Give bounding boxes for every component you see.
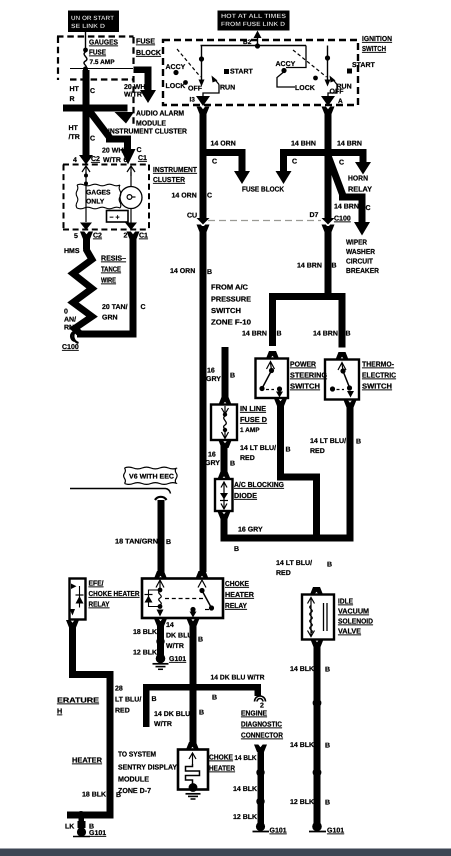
svg-text:ZONE D-7: ZONE D-7: [118, 786, 151, 795]
svg-text:B: B: [230, 373, 235, 380]
label: 20 TAN/ GRN: [102, 303, 128, 322]
svg-text:RN: RN: [64, 325, 74, 332]
label: CHOKE HEATER RELAY: [225, 579, 255, 610]
svg-text:LK: LK: [65, 824, 74, 831]
svg-text:14 DK BLU W/TR: 14 DK BLU W/TR: [211, 674, 265, 682]
connector arrow into instrument cluster pin 4: [79, 155, 93, 165]
label: cropped 20 WHT W/TR lower left: [69, 125, 80, 141]
svg-text:BREAKER: BREAKER: [346, 266, 380, 275]
label: 20 WHT W/TR 6: [102, 148, 128, 165]
svg-text:6: 6: [124, 157, 128, 164]
label: ENGINE DIAGNOSTIC CONNECTOR: [241, 709, 284, 740]
svg-text:C: C: [90, 136, 95, 143]
svg-text:OFF: OFF: [188, 86, 203, 93]
label: HORN RELAY: [348, 174, 372, 194]
battery symbol box: [107, 211, 129, 223]
resistor: RESISTANCE WIRE zigzag: [73, 246, 92, 334]
svg-text:RUN: RUN: [220, 85, 235, 92]
svg-text:STEERING: STEERING: [290, 371, 327, 380]
svg-text:14 ORN: 14 ORN: [211, 141, 236, 148]
label: 16 GRY / B lower: [205, 452, 235, 468]
svg-text:B: B: [230, 461, 235, 468]
svg-text:C2: C2: [91, 156, 100, 163]
svg-text:GRY: GRY: [206, 376, 221, 383]
svg-text:14 LT BLU/: 14 LT BLU/: [276, 559, 312, 567]
choke heater box: [178, 750, 208, 800]
svg-text:C100: C100: [334, 216, 351, 223]
svg-text:VACUUM: VACUUM: [338, 607, 369, 616]
label: pin 2 C1: [124, 233, 149, 240]
svg-text:B: B: [207, 269, 212, 276]
wire: W1 14 ORN main vertical upper: [197, 107, 210, 219]
svg-text:18 TAN/GRN: 18 TAN/GRN: [115, 538, 158, 546]
svg-text:14 BLK: 14 BLK: [233, 786, 257, 793]
label: TO SYSTEM SENTRY DISPLAY MODULE ZONE D-7: [118, 750, 177, 796]
svg-text:TO SYSTEM: TO SYSTEM: [118, 750, 156, 759]
svg-text:START: START: [230, 69, 254, 76]
thin line under fuse: [70, 68, 133, 70]
svg-text:ACCY: ACCY: [166, 64, 186, 71]
svg-text:RED: RED: [115, 708, 130, 715]
svg-text:A: A: [338, 98, 343, 105]
svg-text:14 BRN: 14 BRN: [313, 331, 338, 338]
svg-text:C2: C2: [93, 233, 102, 240]
wire: thermo output 14 LT BLU/RED: [344, 400, 357, 542]
connector arrow into cluster pin 6: [121, 149, 136, 165]
connector: 18 TAN/GRN top half: [155, 497, 167, 500]
svg-text:SWITCH: SWITCH: [290, 382, 320, 391]
wire: branch to audio alarm module arrow: [86, 105, 134, 124]
svg-text:G101: G101: [270, 828, 287, 835]
svg-text:G101: G101: [89, 830, 106, 837]
label: 14 DK BLU W/TR between: [166, 622, 192, 650]
svg-text:LT BLU/: LT BLU/: [115, 696, 141, 704]
label: FUSE BLOCK: [136, 37, 162, 58]
svg-text:14 BLK: 14 BLK: [290, 742, 314, 749]
svg-text:G101: G101: [327, 828, 344, 835]
wire: W2 T-split to both switches: [269, 293, 346, 348]
svg-text:14: 14: [166, 622, 174, 629]
svg-text:VALVE: VALVE: [338, 627, 361, 636]
wire: diagonal branch to instrument cluster pin 6: [86, 107, 131, 150]
svg-text:DIAGNOSTIC: DIAGNOSTIC: [241, 720, 282, 729]
label: 14 LT BLU/ RED / B (PS output): [240, 444, 291, 462]
svg-text:FUSE: FUSE: [136, 37, 155, 46]
wire: relay right output 14 DK BLU W/TR: [187, 619, 200, 745]
svg-text:HEATER: HEATER: [225, 590, 255, 599]
choke heater relay box: [142, 579, 223, 619]
svg-text:B: B: [325, 800, 330, 807]
label: 18 TAN/GRN / B: [115, 538, 171, 547]
label: pin C C1: [137, 147, 148, 162]
svg-text:W/TR: W/TR: [166, 642, 184, 650]
svg-text:RELAY: RELAY: [225, 601, 247, 610]
svg-text:SENTRY DISPLAY: SENTRY DISPLAY: [118, 763, 177, 772]
svg-text:C: C: [137, 147, 142, 154]
svg-text:18 BLK: 18 BLK: [133, 629, 157, 636]
svg-text:C: C: [207, 193, 212, 200]
ignition switch wafer 2: [276, 46, 376, 98]
label: TEMPERATURE SWITCH (cropped): [57, 696, 99, 716]
label: 14 BRN / C at horn branch: [337, 141, 362, 167]
svg-text:LOCK: LOCK: [166, 83, 186, 90]
svg-text:W/TR: W/TR: [103, 156, 121, 164]
svg-text:RELAY: RELAY: [348, 185, 372, 194]
svg-text:C1: C1: [138, 155, 147, 162]
svg-text:16 GRY: 16 GRY: [238, 527, 263, 534]
svg-text:14 LT BLU/: 14 LT BLU/: [240, 444, 276, 452]
svg-text:14 LT BLU/: 14 LT BLU/: [310, 437, 346, 445]
svg-text:CIRCUIT: CIRCUIT: [346, 257, 374, 266]
wire: right cluster feed drop: [286, 46, 306, 68]
svg-text:C: C: [339, 160, 344, 167]
svg-text:ELECTRIC: ELECTRIC: [362, 371, 396, 380]
svg-text:R: R: [70, 96, 75, 103]
svg-text:SWITCH: SWITCH: [362, 382, 392, 391]
svg-text:2: 2: [124, 233, 128, 240]
svg-text:WASHER: WASHER: [346, 247, 376, 256]
wire: choke heater feed: [186, 742, 199, 750]
svg-text:20 TAN/: 20 TAN/: [102, 303, 128, 311]
svg-text:/TR: /TR: [69, 133, 80, 141]
svg-text:RED: RED: [276, 570, 291, 577]
a/c blocking diode box: [215, 479, 233, 511]
svg-text:B: B: [198, 637, 203, 644]
svg-text:B: B: [212, 695, 217, 702]
svg-text:B: B: [327, 562, 332, 569]
svg-text:IGNITION: IGNITION: [362, 34, 392, 43]
label: AUDIO ALARM MODULE: [136, 109, 184, 128]
wire: feed from left edge: [63, 105, 86, 112]
svg-text:ENGINE: ENGINE: [241, 709, 267, 718]
node B2: arrow to hot banner: [243, 31, 262, 49]
connector flare into thermo electric switch: [336, 352, 349, 360]
label: 14 BRN / C at wiper branch: [334, 204, 371, 213]
svg-text:12 BLK: 12 BLK: [233, 814, 257, 821]
svg-text:12 BLK: 12 BLK: [290, 799, 314, 806]
svg-text:14 DK BLU: 14 DK BLU: [154, 711, 190, 718]
label: POWER STEERING SWITCH: [290, 360, 327, 391]
svg-text:C: C: [90, 88, 95, 95]
wire: EFE relay output 28 LT BLU/RED: [66, 620, 114, 819]
svg-text:H: H: [57, 707, 62, 716]
svg-text:B: B: [277, 331, 282, 338]
ground G101 relay: [153, 654, 187, 670]
connector flare into power steering switch: [266, 351, 279, 359]
wire: relay left output 18 BLK to ground: [154, 619, 167, 657]
svg-text:FROM A/C: FROM A/C: [211, 283, 248, 292]
label: 14 DK BLU W/TR left branch: [152, 696, 191, 728]
svg-text:B: B: [199, 710, 204, 717]
svg-text:14 BRN: 14 BRN: [334, 204, 359, 211]
svg-text:ONLY: ONLY: [86, 199, 105, 206]
svg-text:B: B: [166, 539, 171, 546]
label: 14 BRN / B left drop: [242, 331, 282, 338]
svg-text:DK BLU: DK BLU: [166, 633, 192, 640]
svg-text:ZONE F-10: ZONE F-10: [211, 318, 251, 327]
wire: 16 GRY fuse to diode: [218, 441, 232, 480]
label: IGNITION SWITCH: [362, 34, 392, 53]
svg-text:HT: HT: [70, 86, 80, 93]
label: V6 WITH EEC wavy box: [124, 467, 178, 484]
svg-text:RED: RED: [310, 448, 325, 455]
svg-text:16: 16: [208, 452, 216, 459]
svg-text:5: 5: [74, 233, 78, 240]
svg-text:V6 WITH EEC: V6 WITH EEC: [129, 474, 174, 481]
svg-text:I3: I3: [190, 97, 196, 104]
label: cropped 20 TAN/ GRN left: [64, 309, 76, 332]
svg-text:GRN: GRN: [102, 315, 118, 322]
svg-text:HEATER: HEATER: [72, 756, 103, 765]
svg-text:C: C: [141, 304, 146, 311]
svg-text:GAUGES: GAUGES: [89, 38, 118, 47]
label: CHOKE HEATER: [209, 753, 236, 773]
connector arrows below cluster line: [82, 166, 135, 176]
svg-text:INSTRUMENT CLUSTER: INSTRUMENT CLUSTER: [108, 127, 188, 136]
wire: W1 main vertical lower: [200, 226, 207, 572]
svg-text:RESIS–: RESIS–: [101, 254, 126, 263]
svg-text:B: B: [356, 439, 361, 446]
svg-text:7.5 AMP: 7.5 AMP: [90, 59, 116, 66]
svg-text:INSTRUMENT: INSTRUMENT: [153, 165, 198, 174]
label: FROM A/C PRESSURE SWITCH ZONE F-10: [211, 283, 251, 327]
wire: W2 14 BRN main vertical upper: [322, 107, 335, 219]
svg-text:C: C: [212, 159, 217, 166]
wire: below engine diagnostic connector to ground: [253, 745, 287, 835]
svg-text:FUSE: FUSE: [89, 48, 106, 57]
idle vacuum solenoid valve box: [302, 587, 334, 640]
svg-text:HT: HT: [69, 125, 79, 132]
svg-text:B: B: [346, 331, 351, 338]
instrument cluster dashed box: [63, 165, 149, 230]
svg-text:14 BLK: 14 BLK: [235, 755, 257, 762]
labels: 14 BLK / 14 BLK / 12 BLK mid column: [233, 786, 257, 821]
wire: ignition feed bus: [201, 45, 307, 47]
banner: HOT AT ALL TIMES FROM FUSE LINK D: [218, 11, 290, 31]
ignition switch wafer 1: [166, 46, 254, 98]
connector D7/C100 on W2: [322, 218, 335, 232]
svg-text:CLUSTER: CLUSTER: [153, 175, 186, 184]
svg-text:0: 0: [64, 309, 68, 316]
svg-text:POWER: POWER: [290, 360, 317, 369]
label: RESISTANCE WIRE: [101, 254, 126, 285]
svg-text:UN OR START: UN OR START: [71, 15, 114, 22]
wire: W2 diagonal to wiper washer circuit breaker: [327, 153, 370, 236]
wire: W1 branch to fuse block arrow: [202, 149, 250, 184]
svg-text:IN LINE: IN LINE: [240, 404, 266, 413]
label: INSTRUMENT CLUSTER (box): [153, 165, 198, 184]
svg-text:RUN: RUN: [337, 84, 352, 91]
label: 16 GRY / B upper: [206, 368, 235, 384]
svg-text:HEATER: HEATER: [209, 764, 236, 773]
svg-text:SWITCH: SWITCH: [211, 306, 241, 315]
svg-text:HOT AT ALL TIMES: HOT AT ALL TIMES: [221, 13, 286, 20]
fuse: GAUGES FUSE 7.5 AMP: [83, 38, 118, 72]
svg-text:WIRE: WIRE: [101, 276, 116, 285]
label: 14 ORN / B: [170, 268, 212, 276]
in-line fuse D box: [211, 405, 237, 441]
wire: resistance wire bottom run: [77, 331, 137, 338]
wire: main 20 WHT vertical from fuse: [83, 70, 90, 156]
svg-text:CONNECTOR: CONNECTOR: [241, 731, 284, 740]
svg-text:20 WHT: 20 WHT: [124, 84, 150, 91]
wire: power steering output 14 LT BLU/RED: [274, 399, 320, 542]
wire: from pin 2 C1 down (thick): [127, 232, 140, 338]
svg-text:CHOKE: CHOKE: [225, 579, 249, 588]
V6 with EEC separator line: [70, 489, 171, 494]
svg-text:20 WHT: 20 WHT: [102, 148, 128, 155]
svg-text:HORN: HORN: [348, 174, 368, 183]
wire: 16 GRY from diode to junction: [218, 512, 354, 542]
label: A/C BLOCKING DIODE: [234, 480, 284, 500]
label: EFE/ CHOKE HEATER RELAY: [89, 579, 141, 609]
label: 14 LT BLU/ RED / B above IVSV: [276, 559, 332, 577]
label: pin 4 C2: [73, 156, 100, 164]
svg-text:C100: C100: [62, 344, 79, 351]
svg-text:ACCY: ACCY: [276, 61, 296, 68]
svg-text:B: B: [332, 263, 337, 270]
svg-text:CHOKE HEATER: CHOKE HEATER: [89, 589, 141, 598]
svg-text:W/TR: W/TR: [124, 91, 142, 99]
svg-text:IDLE: IDLE: [338, 597, 353, 606]
svg-text:14 ORN: 14 ORN: [172, 193, 197, 200]
svg-text:GAGES: GAGES: [86, 190, 111, 197]
wire: W2 main vertical lower: [325, 226, 332, 297]
label: 14 BRN / B right drop: [313, 331, 351, 338]
label: 14 ORN / C at branch: [211, 141, 236, 166]
svg-text:B: B: [325, 743, 330, 750]
label: 14 BHN / C: [291, 141, 316, 166]
connector CU on W1: [187, 213, 210, 233]
bottom page bar: [0, 849, 451, 856]
svg-text:AUDIO ALARM: AUDIO ALARM: [136, 109, 184, 118]
svg-text:14 BRN: 14 BRN: [337, 141, 362, 148]
svg-text:B: B: [234, 546, 239, 553]
wire: W2 branch left to fuse block arrow: [276, 149, 329, 184]
svg-text:B: B: [325, 667, 330, 674]
svg-text:− +: − +: [110, 215, 120, 222]
svg-text:TANCE: TANCE: [101, 265, 121, 274]
svg-text:WIPER: WIPER: [346, 238, 368, 247]
svg-text:DIODE: DIODE: [234, 491, 257, 500]
exit I3 arrow: [190, 96, 211, 106]
svg-text:MODULE: MODULE: [118, 775, 149, 784]
wire: W2 branch right to horn relay arrow: [328, 149, 371, 175]
label: 14 LT BLU/ RED / B (thermo output): [310, 437, 361, 455]
svg-text:SOLENOID: SOLENOID: [338, 617, 373, 626]
label: IDLE VACUUM SOLENOID VALVE: [338, 597, 373, 636]
label: THERMO-ELECTRIC SWITCH: [362, 360, 396, 391]
svg-text:14 BRN: 14 BRN: [242, 331, 267, 338]
wire: 14 DK BLU W/TR horizontal at junction: [143, 684, 261, 727]
ignition switch dashed box: [163, 40, 358, 105]
svg-text:LOCK: LOCK: [295, 85, 315, 92]
svg-text:C: C: [366, 205, 371, 212]
svg-text:14 BHN: 14 BHN: [291, 141, 316, 148]
svg-text:FUSE BLOCK: FUSE BLOCK: [242, 185, 285, 194]
banner: RUN OR START FUSE LINK D: [68, 11, 119, 33]
label: 18 BLK / B bottom left: [82, 792, 121, 800]
svg-text:D7: D7: [310, 212, 319, 219]
svg-text:C1: C1: [139, 233, 148, 240]
wire: resistance feed start flare: [80, 232, 93, 240]
svg-text:HMS: HMS: [64, 248, 80, 255]
svg-text:START: START: [352, 62, 376, 69]
svg-text:4: 4: [73, 157, 77, 164]
svg-text:ERATURE: ERATURE: [57, 696, 99, 705]
label: 28 LT BLU/ RED: [115, 686, 141, 715]
svg-text:B: B: [152, 696, 157, 703]
wire: 16 GRY to in-line fuse: [219, 347, 232, 405]
svg-text:1 AMP: 1 AMP: [240, 427, 260, 434]
wire: banner to gauges fuse: [85, 32, 87, 49]
fuse block dashed outline: [57, 37, 134, 125]
exit A arrow: [321, 96, 343, 106]
svg-text:CU: CU: [187, 213, 197, 220]
svg-text:A/C BLOCKING: A/C BLOCKING: [234, 480, 284, 489]
wire: 20 WHT W/TR from fuse block to arrow: [134, 67, 157, 104]
svg-text:12 BLK: 12 BLK: [133, 650, 157, 657]
thermo electric switch box: [325, 360, 359, 400]
svg-text:FUSE D: FUSE D: [240, 415, 267, 424]
svg-text:PRESSURE: PRESSURE: [211, 295, 251, 304]
label: cropped 20 WHT W/TR left: [70, 86, 80, 103]
label: IN LINE FUSE D 1 AMP: [240, 404, 267, 434]
label: 20 WHT W/TR: [124, 84, 150, 99]
svg-text:RED: RED: [240, 455, 255, 462]
wire: thin lamp feed left with splices: [84, 172, 88, 222]
gages only wavy box: [76, 184, 121, 209]
EFE choke heater relay box: [70, 579, 86, 620]
indicator lamp: [120, 172, 142, 223]
label: WIPER WASHER CIRCUIT BREAKER: [346, 238, 380, 276]
svg-text:AN/: AN/: [64, 316, 76, 324]
svg-text:RELAY: RELAY: [89, 600, 110, 609]
svg-text:GRY: GRY: [205, 460, 220, 467]
svg-text:CHOKE: CHOKE: [209, 753, 233, 762]
svg-text:W/TR: W/TR: [154, 720, 172, 728]
svg-text:C: C: [292, 159, 297, 166]
splice and ground G101 bottom left: [65, 811, 106, 837]
svg-text:B: B: [286, 447, 291, 454]
label: 14 ORN / C mid: [172, 193, 213, 200]
svg-text:FROM FUSE LINK D: FROM FUSE LINK D: [221, 21, 286, 28]
svg-text:SWITCH: SWITCH: [362, 44, 386, 53]
connector arrows at cluster bottom: [80, 223, 92, 231]
svg-text:EFE/: EFE/: [89, 579, 104, 588]
label: pin 5 C2: [74, 233, 102, 241]
label: 14 BRN / B on W2: [297, 263, 337, 270]
wire: W1 into relay flare: [196, 571, 209, 579]
svg-text:14 BRN: 14 BRN: [297, 263, 322, 270]
svg-text:18 BLK: 18 BLK: [82, 792, 106, 799]
svg-text:G101: G101: [169, 656, 186, 663]
svg-text:BLOCK: BLOCK: [136, 48, 162, 57]
svg-text:14 BLK: 14 BLK: [290, 666, 314, 673]
power steering switch box: [256, 359, 289, 399]
svg-text:28: 28: [115, 686, 123, 693]
dashed line: connector C100: [208, 220, 321, 222]
labels: right column 14 BLK / 14 BLK / 12 BLK with B: [290, 666, 330, 807]
svg-text:THERMO-: THERMO-: [362, 360, 395, 369]
connector C100 half: [71, 330, 78, 344]
wire: IVSV output to ground right column: [309, 640, 344, 835]
svg-text:14 ORN: 14 ORN: [170, 268, 195, 275]
connector: engine diagnostic pin 2: [255, 696, 266, 710]
svg-text:16: 16: [207, 368, 215, 375]
svg-text:SE LINK D: SE LINK D: [71, 23, 106, 30]
wire: 18 TAN/GRN to relay: [154, 500, 167, 579]
